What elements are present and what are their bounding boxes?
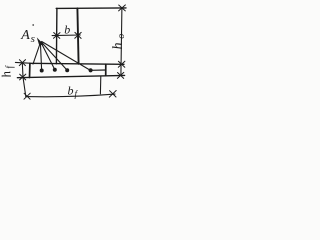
svg-text:h: h [111, 42, 126, 50]
svg-text:h: h [0, 70, 14, 79]
rebar dot 4 [89, 68, 93, 72]
flange bottom edge with extensions both sides [17, 75, 124, 77]
svg-text:f: f [4, 64, 15, 70]
leader line 1 from As to rebar dot 1 [40, 43, 41, 70]
bf right extension line from flange bottom [99, 76, 101, 93]
svg-text:A: A [20, 28, 30, 43]
leader line 2 from As to rebar dot 2 [41, 42, 55, 69]
arrow tick top end of hf [19, 60, 25, 66]
rebar dot 3 [65, 68, 69, 72]
leader line 0 from As to flange surface [33, 42, 41, 64]
dimension line bf (bottom) [26, 94, 115, 97]
svg-text:s: s [31, 33, 35, 45]
arrow tick bottom end of hf [20, 74, 26, 80]
hf top extension line [15, 61, 29, 64]
leader line 3 from As to rebar dot 3 [41, 42, 66, 70]
flange right edge [105, 64, 107, 75]
svg-text:o: o [116, 33, 127, 39]
arrow tick of h0/extension at flange bottom level [117, 72, 123, 78]
label hf (rotated) [0, 64, 17, 79]
flange left edge [29, 63, 31, 77]
arrow tick right end of b [75, 32, 81, 38]
svg-text:b: b [68, 84, 74, 98]
flange top edge with extension to h0 dimension line [30, 63, 124, 64]
web (stem) left edge [55, 8, 58, 64]
rebar centroid line from dot 4 to flange right edge [91, 69, 106, 71]
svg-text:b: b [64, 23, 70, 37]
arrow tick right end of bf [109, 91, 116, 98]
web (stem) top edge with extension line to h0 dimension [56, 7, 126, 9]
rebar dot 2 [53, 68, 57, 72]
arrow tick of h0 at flange top level [118, 61, 125, 67]
rebar dot 1 [40, 69, 44, 73]
svg-text:f: f [75, 89, 79, 99]
web (stem) right edge [77, 8, 78, 64]
leader arrowhead near As label [37, 37, 44, 45]
arrow tick left end of bf [24, 93, 30, 99]
dimension line b (web width) [52, 34, 80, 37]
arrow tick top end of h0 [119, 5, 126, 11]
leader line 4 from As to rebar dot 4 [42, 42, 90, 71]
dimension line hf (vertical, left side) continuing as bf left extension [22, 63, 26, 97]
stray scan speck [32, 24, 34, 26]
label h0 (rotated) [110, 33, 127, 49]
arrow tick left end of b [54, 33, 61, 39]
dimension line h0 (vertical, right side) [121, 8, 122, 76]
